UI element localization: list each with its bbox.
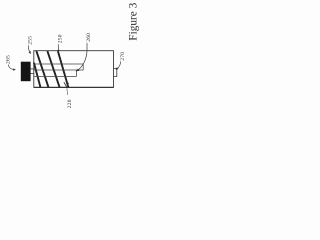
hatched layer 255 (diagonal hatching) xyxy=(34,51,68,87)
leader arrow for 250 xyxy=(57,44,59,52)
leader arrow for 270 xyxy=(116,62,121,70)
label 265 xyxy=(5,55,11,64)
svg-text:255: 255 xyxy=(27,36,33,45)
body 220 (main rectangle outline) xyxy=(34,51,114,88)
caption Figure 3 xyxy=(127,2,139,40)
layer 260 (stepped band, upper) xyxy=(34,64,83,70)
layer step (lower line) xyxy=(34,70,76,76)
label 270 xyxy=(120,52,126,61)
leader arrow for 220 xyxy=(64,82,69,95)
wire (upper connector black rect to body) xyxy=(31,68,35,70)
label 255 xyxy=(27,36,33,45)
label 220 xyxy=(67,99,73,108)
svg-text:220: 220 xyxy=(67,99,73,108)
electrode 265 (black rectangle) xyxy=(21,62,31,81)
label 260 xyxy=(86,33,92,42)
tab 270 (small rectangle on right edge) xyxy=(113,68,116,76)
svg-text:Figure 3: Figure 3 xyxy=(127,2,139,40)
svg-text:270: 270 xyxy=(120,52,126,61)
svg-text:250: 250 xyxy=(57,34,63,43)
leader arrow for 255 xyxy=(28,46,31,55)
svg-text:265: 265 xyxy=(5,55,11,64)
leader arrow for 265 xyxy=(8,65,16,71)
leader arrow for 260 xyxy=(76,43,87,72)
label 250 xyxy=(57,34,63,43)
wire (lower connector black rect to body) xyxy=(31,72,35,74)
svg-text:260: 260 xyxy=(86,33,92,42)
